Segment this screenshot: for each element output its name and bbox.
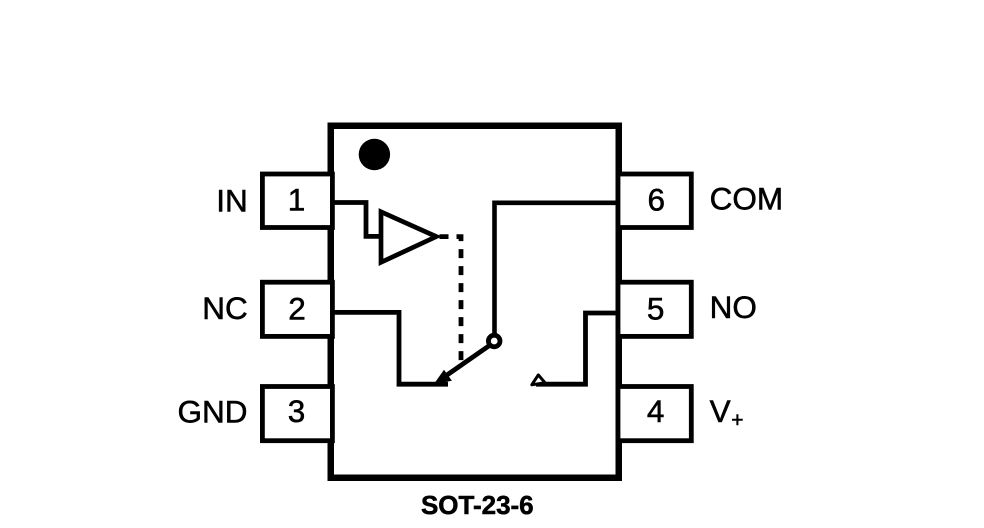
pin 6 pad xyxy=(618,174,691,228)
package name label SOT-23-6 xyxy=(421,490,534,520)
net label V+ (pin 4) xyxy=(710,393,744,432)
pin 1 indicator dot xyxy=(359,139,390,170)
svg-text:5: 5 xyxy=(647,290,665,326)
svg-text:4: 4 xyxy=(647,393,665,429)
net label IN (pin 1) xyxy=(216,182,248,218)
pin 5 pad xyxy=(618,282,691,336)
svg-text:1: 1 xyxy=(288,182,306,218)
svg-text:SOT-23-6: SOT-23-6 xyxy=(421,490,534,520)
pin 3 pad xyxy=(262,387,332,441)
svg-text:2: 2 xyxy=(288,290,306,326)
svg-text:6: 6 xyxy=(648,182,666,218)
pin 2 pad xyxy=(262,282,332,336)
net label COM (pin 6) xyxy=(710,181,784,217)
pin 1 pad xyxy=(262,174,332,228)
net label NO (pin 5) xyxy=(710,289,757,325)
NO contact open arrowhead xyxy=(532,375,545,385)
switch arm SW1 with filled arrowhead xyxy=(435,345,489,383)
dashed control line from buffer output to switch xyxy=(437,237,462,362)
wire pin5 (NO) to right contact xyxy=(536,313,620,384)
svg-text:GND: GND xyxy=(178,394,248,430)
switch pole pivot (circle) xyxy=(488,335,500,347)
svg-text:COM: COM xyxy=(710,181,784,217)
svg-text:NC: NC xyxy=(202,290,248,326)
wire pin6 (COM) to switch pole xyxy=(495,203,619,334)
wire pin2 (NC) to left contact xyxy=(330,312,448,384)
wire pin1 to buffer input xyxy=(330,203,381,237)
svg-text:NO: NO xyxy=(710,289,757,325)
IC body U1 (SOT-23-6 package outline) xyxy=(331,126,619,478)
net label GND (pin 3) xyxy=(178,394,248,430)
net label NC (pin 2) xyxy=(202,290,248,326)
svg-text:3: 3 xyxy=(288,393,306,429)
pin 4 pad xyxy=(618,387,691,441)
buffer driver U1A (triangle) xyxy=(381,212,436,262)
svg-text:IN: IN xyxy=(216,182,248,218)
svg-text:V: V xyxy=(710,393,731,429)
svg-text:+: + xyxy=(731,409,743,432)
